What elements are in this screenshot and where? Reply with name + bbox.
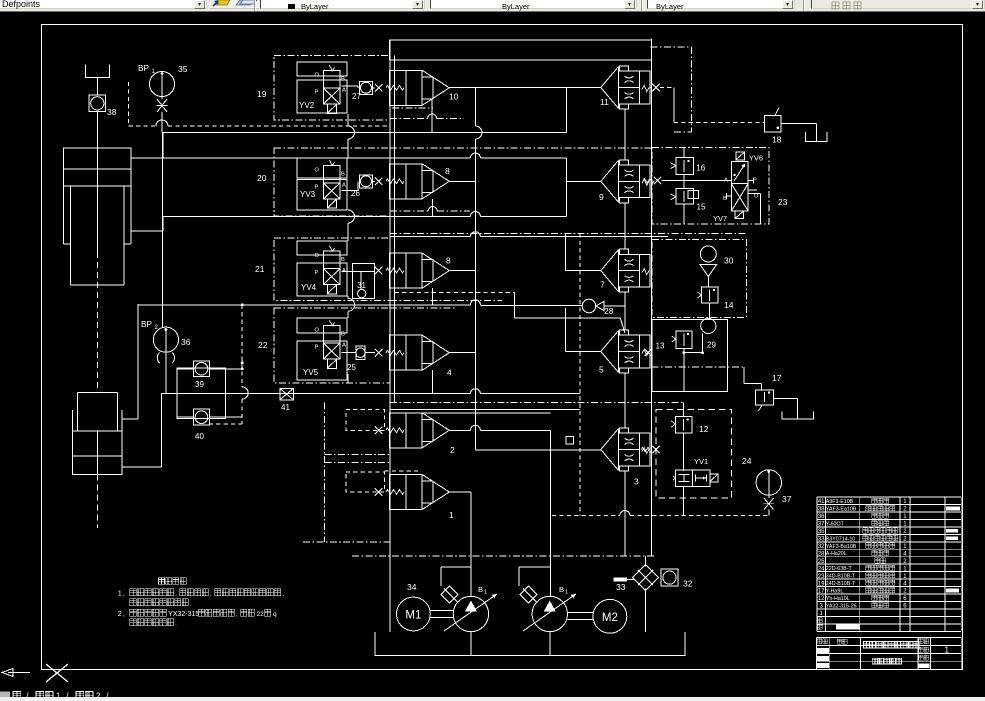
title block xyxy=(816,637,961,669)
svg-text:M1: M1 xyxy=(405,610,421,622)
check valve 39 xyxy=(194,361,210,377)
solenoid flag YV6 xyxy=(736,152,744,160)
title block small labels xyxy=(817,639,827,644)
svg-text:,: , xyxy=(175,591,177,597)
title drawing subtitle xyxy=(872,658,901,664)
group port line xyxy=(342,352,356,354)
jog port to bus y132 xyxy=(162,133,164,159)
relief valve 13 xyxy=(676,331,692,348)
svg-text:.: . xyxy=(190,601,192,607)
wire BP2 down xyxy=(165,352,167,393)
O drain wire xyxy=(748,189,757,191)
svg-text:16: 16 xyxy=(696,164,705,173)
pilot dashed line vertical xyxy=(128,82,130,126)
svg-text:YX32-315: YX32-315 xyxy=(168,611,199,618)
CY2 bottom port wire xyxy=(122,466,161,468)
svg-text:2: 2 xyxy=(118,609,122,618)
valve1 tip wire to pump riser xyxy=(449,491,471,493)
svg-text:24D-B10B-T: 24D-B10B-T xyxy=(826,581,856,587)
svg-text:40: 40 xyxy=(195,432,204,441)
svg-text:23: 23 xyxy=(778,197,788,207)
svg-text:YAF3-Ba10B: YAF3-Ba10B xyxy=(826,544,857,550)
wire x475 bus to y409 xyxy=(474,403,476,410)
svg-text:9: 9 xyxy=(599,192,604,202)
CY1 bottom port wire xyxy=(131,230,163,232)
svg-text:8: 8 xyxy=(445,166,450,176)
svg-text:BP: BP xyxy=(141,320,152,329)
seat valve 3 xyxy=(601,429,619,471)
note line 4 xyxy=(130,619,174,626)
wire 12 to YV1 xyxy=(683,433,685,471)
valve group box 25 xyxy=(274,308,390,383)
bus wire y216 with hop xyxy=(163,216,471,218)
throttle right of 11 xyxy=(652,84,660,92)
svg-text:28: 28 xyxy=(818,551,825,557)
check valve on pump2 outlet xyxy=(523,589,537,603)
throttle and spring of 8 xyxy=(375,178,383,186)
svg-text:Y-60OT: Y-60OT xyxy=(826,521,845,527)
svg-text:A-Ha20L: A-Ha20L xyxy=(826,551,847,557)
svg-text:30: 30 xyxy=(724,256,734,266)
svg-text:22: 22 xyxy=(258,340,268,350)
title right cells xyxy=(919,639,929,644)
CY1 top port bus y158 to valve 9 xyxy=(131,157,470,159)
svg-text:YV2: YV2 xyxy=(299,101,315,110)
svg-text:O: O xyxy=(315,167,320,173)
svg-text:B: B xyxy=(341,171,345,177)
pilot valve YV4 body xyxy=(297,241,347,255)
svg-text:YV4: YV4 xyxy=(301,283,317,292)
svg-text:34D-B10B-T: 34D-B10B-T xyxy=(826,574,856,580)
dashed pilot bus y515 with hop xyxy=(552,515,620,517)
svg-text:,: , xyxy=(282,591,284,597)
dashed pilot to valve 18 xyxy=(674,121,764,123)
wire YV1 down xyxy=(683,486,685,515)
dash-dot bus on top edge xyxy=(400,39,651,41)
svg-text:14: 14 xyxy=(724,300,734,310)
solenoid flag YV7 xyxy=(735,211,743,219)
svg-text:1: 1 xyxy=(484,590,487,596)
svg-text:A: A xyxy=(342,343,346,349)
piston rod dashed CY1-CY2 xyxy=(96,252,98,392)
svg-text:3: 3 xyxy=(634,477,639,487)
riser to 32 xyxy=(645,589,647,632)
svg-text:B: B xyxy=(559,585,564,594)
svg-text:24: 24 xyxy=(742,456,752,466)
svg-text:A9F3-E10B: A9F3-E10B xyxy=(826,499,854,505)
UCS icon X xyxy=(46,664,68,682)
svg-text:8: 8 xyxy=(446,256,451,266)
tank T2 xyxy=(805,132,826,142)
throttle on valve3 row xyxy=(652,446,659,453)
gauge BP2 xyxy=(153,327,178,352)
group port line xyxy=(342,189,358,191)
cylinder CY2 xyxy=(76,393,78,432)
throttle and spring of 1 xyxy=(375,488,383,496)
svg-text:2: 2 xyxy=(450,445,455,455)
svg-text:P: P xyxy=(315,270,319,276)
wire filter to cylinder xyxy=(96,112,98,149)
svg-text:YV3: YV3 xyxy=(300,190,316,199)
svg-text:YV7: YV7 xyxy=(713,214,727,223)
svg-text:13: 13 xyxy=(656,342,665,351)
seat valve 5 xyxy=(601,331,619,373)
pilot dashed line horizontal with hop xyxy=(129,125,156,127)
svg-text:7: 7 xyxy=(600,280,605,290)
orifice square on feed 3 xyxy=(566,436,573,443)
dash-dot y211 row 20 xyxy=(390,210,428,212)
pilot op check 28 xyxy=(480,305,582,307)
manifold wire x390 xyxy=(389,40,391,632)
note line 2 xyxy=(130,599,189,606)
svg-text:20: 20 xyxy=(257,173,267,183)
seat valve 9 xyxy=(601,160,619,202)
technical requirements title xyxy=(159,578,187,585)
shaft M2-pump2 xyxy=(568,612,593,614)
svg-text:24: 24 xyxy=(818,566,825,572)
wire 33-32 xyxy=(627,579,635,581)
check valve 32 square xyxy=(661,569,678,586)
svg-text:M2: M2 xyxy=(602,612,618,624)
pilot valve YV2 body xyxy=(297,62,347,76)
filter 32 diamond xyxy=(633,565,659,591)
top right dash-dot pilot xyxy=(651,46,692,48)
svg-text:28: 28 xyxy=(604,306,614,316)
air filter 30 xyxy=(700,246,716,262)
cartridge valve 1 body xyxy=(390,475,423,510)
svg-text:32: 32 xyxy=(683,579,693,589)
svg-text:11: 11 xyxy=(600,97,609,107)
pump1 riser x470 xyxy=(470,492,472,596)
throttle arcs under BP2 xyxy=(157,353,159,364)
svg-text:B: B xyxy=(341,257,345,263)
port line into group 23 xyxy=(643,179,654,183)
svg-text:35: 35 xyxy=(178,64,188,74)
pilot valve YV5 body xyxy=(297,318,347,333)
step wire to row line xyxy=(373,271,375,272)
dashed pilot y292 route to valve5 xyxy=(395,292,515,294)
drain wire valve8 xyxy=(432,199,434,217)
throttle check valve 41 xyxy=(280,388,294,399)
drain wire valve4 xyxy=(432,370,434,394)
wire between seat valves x625 xyxy=(624,109,626,161)
seat valve 11 xyxy=(601,67,619,109)
svg-text:12: 12 xyxy=(818,596,825,602)
P port stub xyxy=(748,180,753,182)
svg-text:27: 27 xyxy=(352,92,361,101)
tip wire of 4 xyxy=(449,352,475,354)
dash-dot bus y367 xyxy=(652,366,744,368)
wires in 13/29 box xyxy=(683,349,685,353)
valve group box 31 xyxy=(274,238,390,301)
svg-text:B3Y0714-10: B3Y0714-10 xyxy=(826,536,856,542)
tank T1 top-left xyxy=(86,65,110,78)
pilot vertical x580 xyxy=(579,233,581,515)
valve group 24 box xyxy=(656,409,732,498)
svg-text:P: P xyxy=(315,345,319,351)
gauge BP1 xyxy=(150,72,175,97)
svg-text:33: 33 xyxy=(616,582,626,592)
check valve 29 xyxy=(701,318,716,333)
svg-text:O: O xyxy=(315,328,320,334)
wires 16-15 stack xyxy=(683,147,685,157)
svg-text:Y-Ha9L: Y-Ha9L xyxy=(826,589,844,595)
wire throttle-11 to right xyxy=(673,88,675,123)
shaft M1-pump1 xyxy=(430,610,453,612)
group port line xyxy=(342,271,375,273)
svg-text:22D-63B-T: 22D-63B-T xyxy=(826,566,853,572)
oil tank bottom xyxy=(375,632,685,656)
svg-text:12: 12 xyxy=(699,424,709,434)
dash-dot bus y555 xyxy=(352,555,655,557)
pilot wire x348 between groups xyxy=(347,114,349,126)
svg-text:A: A xyxy=(342,182,346,188)
svg-text:1: 1 xyxy=(118,588,122,597)
svg-text:33: 33 xyxy=(818,537,825,543)
bus wire y304 with hop xyxy=(138,304,470,306)
svg-text:31: 31 xyxy=(357,281,366,290)
wire left riser BP1-BP2 xyxy=(161,133,163,328)
solenoid flag of YV1 xyxy=(710,474,718,482)
pump2 riser x550 xyxy=(549,430,551,596)
filter 38 xyxy=(89,95,106,112)
svg-text:15: 15 xyxy=(697,203,706,212)
svg-text:YA32-315-26: YA32-315-26 xyxy=(826,603,857,609)
box around 39/40 xyxy=(177,368,226,418)
motor M1 xyxy=(397,597,431,631)
svg-text:1: 1 xyxy=(945,646,950,655)
svg-text:YV6: YV6 xyxy=(749,154,763,163)
svg-text:A: A xyxy=(342,88,346,94)
BOM row xuhao xyxy=(818,618,823,623)
wire 30 to 14 xyxy=(707,277,709,288)
UCS icon arrow xyxy=(8,672,30,674)
svg-text:38: 38 xyxy=(818,507,825,513)
solenoid valve YV6/YV7 xyxy=(731,161,748,183)
dash-dot bus y233 xyxy=(390,232,746,234)
svg-text:Yh-Ha10L: Yh-Ha10L xyxy=(826,596,850,602)
cartridge valve 10 body xyxy=(390,70,423,105)
throttle and spring of 8 xyxy=(375,267,383,275)
seat valve 7 xyxy=(601,250,619,292)
tip wire of 8 xyxy=(449,270,475,272)
bottom scrollbar strip xyxy=(0,697,985,701)
svg-text:YV5: YV5 xyxy=(303,368,319,377)
ladder vertical x566 from apex11 xyxy=(566,87,568,132)
cartridge valve 2 body xyxy=(390,413,423,448)
svg-text:19: 19 xyxy=(257,89,267,99)
svg-text:25: 25 xyxy=(347,363,356,372)
svg-text:41: 41 xyxy=(818,499,825,505)
tip wire of 8 xyxy=(449,180,475,182)
CY2 top port wire xyxy=(122,418,138,420)
wires valve 17 xyxy=(743,367,745,384)
svg-text:5: 5 xyxy=(599,365,604,375)
wire BP1 down xyxy=(161,96,163,99)
svg-text:29: 29 xyxy=(707,341,716,350)
svg-text:A: A xyxy=(724,178,728,184)
manifold wire x394 xyxy=(394,55,396,402)
svg-text:B: B xyxy=(478,585,483,594)
svg-text:22: 22 xyxy=(256,611,264,618)
svg-text:23: 23 xyxy=(818,574,825,580)
svg-text:25: 25 xyxy=(818,559,825,565)
svg-text:36: 36 xyxy=(181,337,191,347)
feed wire to valve 5 xyxy=(564,308,566,352)
svg-text:YV1: YV1 xyxy=(694,457,708,466)
svg-text:35: 35 xyxy=(818,529,825,535)
ladder vertical x566 upper xyxy=(566,158,568,217)
pilot valve 18 xyxy=(764,116,781,132)
title drawing name xyxy=(864,642,920,648)
throttle and spring of 4 xyxy=(375,349,383,357)
valve2 outer top wire xyxy=(422,412,550,414)
check valve 40 xyxy=(194,409,210,425)
shutoff valve under BP1 xyxy=(157,99,167,112)
relief valve 12 xyxy=(675,417,692,434)
pilot dashed boxes rows 2 and 1 xyxy=(346,410,385,431)
svg-text:P: P xyxy=(315,90,319,96)
svg-text:BP: BP xyxy=(138,64,149,73)
solid bus y236 xyxy=(390,236,470,238)
cartridge valve 8 body xyxy=(390,164,423,199)
svg-text:1: 1 xyxy=(565,590,568,596)
svg-text:,: , xyxy=(123,590,125,597)
feed wire to valve 7 xyxy=(564,233,566,270)
svg-text:B: B xyxy=(341,77,345,83)
throttle on 13/29 left xyxy=(645,349,652,356)
svg-text:10: 10 xyxy=(449,92,459,102)
svg-text:O: O xyxy=(315,73,320,79)
step wire to row line xyxy=(373,352,375,354)
svg-text:,: , xyxy=(123,611,125,618)
wire 12 up xyxy=(683,403,685,417)
cartridge valve 8 body xyxy=(390,253,423,288)
valve group box 27 xyxy=(274,55,390,120)
strainer 33 bar xyxy=(614,578,627,582)
pilot dashed horizontal y424 xyxy=(209,423,242,425)
svg-text:.: . xyxy=(175,621,177,627)
relief valve 15 xyxy=(676,189,694,204)
bus wire y393 with hop xyxy=(161,393,470,395)
wire 18 to tank xyxy=(781,123,817,125)
remote relief valve 17 xyxy=(756,390,774,405)
svg-text:O: O xyxy=(754,194,759,200)
svg-text:32: 32 xyxy=(818,544,825,550)
outer box of valve assembly 10 xyxy=(390,40,652,60)
pump drain risers xyxy=(470,632,472,656)
check valve 31 circle xyxy=(358,289,366,297)
piston rod dashed CY2 below xyxy=(96,474,98,528)
pilot valve YV3 body xyxy=(297,158,347,178)
relief valve 16 xyxy=(676,158,694,175)
pilot box 30/14 xyxy=(652,240,746,318)
valve2 tip wire to pump riser xyxy=(449,429,470,431)
pump B1 right xyxy=(532,596,567,631)
svg-text:37: 37 xyxy=(782,494,792,504)
svg-text:36: 36 xyxy=(818,514,825,520)
cylinder CY1 xyxy=(63,148,131,169)
relief valve 14 xyxy=(702,287,718,303)
dash-dot bus y402 extension xyxy=(390,402,683,404)
main vertical wire x651 xyxy=(651,39,653,556)
feed wire to valve 3 xyxy=(475,449,600,451)
svg-text:34: 34 xyxy=(407,582,417,592)
wire 14 down xyxy=(709,303,711,319)
group port line xyxy=(342,85,358,87)
B port stub xyxy=(727,195,732,197)
svg-text:18: 18 xyxy=(772,135,782,145)
valve group 23 box xyxy=(652,147,769,224)
solid wire y409 xyxy=(390,408,580,410)
svg-text:17: 17 xyxy=(818,589,825,595)
solenoid valve YV1 xyxy=(675,470,710,487)
svg-text:39: 39 xyxy=(195,380,204,389)
drain wire valve10 xyxy=(431,99,433,133)
valve box 13/29 xyxy=(652,320,727,392)
pilot dashed vertical x242 xyxy=(241,305,243,387)
svg-text:4: 4 xyxy=(447,368,452,378)
svg-text:17: 17 xyxy=(772,373,782,383)
svg-text:21: 21 xyxy=(255,264,265,274)
svg-text:O: O xyxy=(315,253,320,259)
dash-dot row segments xyxy=(392,107,433,109)
BOM parts table xyxy=(817,497,961,631)
valve 10 tip wire to 11 xyxy=(449,86,601,88)
dash-dot rows 2/1 edges xyxy=(325,454,391,456)
svg-text:q: q xyxy=(273,611,277,618)
svg-text:1: 1 xyxy=(449,510,454,520)
shutoff valve under 37 xyxy=(764,498,774,510)
model/layout tabs xyxy=(0,692,10,701)
svg-text:38: 38 xyxy=(107,107,117,117)
gauge 37 xyxy=(756,470,781,495)
main bus wire y132 xyxy=(162,132,567,134)
cartridge valve 4 body xyxy=(390,335,423,370)
throttle and spring of 2 xyxy=(375,427,383,435)
svg-text:19: 19 xyxy=(818,581,825,587)
check valve on pump1 outlet xyxy=(444,589,458,603)
svg-text:37: 37 xyxy=(818,522,825,528)
svg-text:41: 41 xyxy=(281,403,290,412)
wires 39/40 to box xyxy=(177,368,194,370)
dash-dot wire y542 xyxy=(303,541,390,543)
collector wire x475 xyxy=(474,87,476,126)
valve group box 26 xyxy=(274,148,390,216)
dash-dot vertical x324 xyxy=(324,403,326,543)
svg-text:B: B xyxy=(341,332,345,338)
throttle and spring of 10 xyxy=(375,84,383,92)
svg-text:YAF3-Ea10B: YAF3-Ea10B xyxy=(826,506,857,512)
motor M2 xyxy=(593,599,627,633)
pump B1 left xyxy=(453,596,488,631)
drain wire valve8b xyxy=(432,288,434,305)
tank T3 under 17 xyxy=(782,411,814,419)
svg-text:,: , xyxy=(210,591,212,597)
svg-text:,: , xyxy=(236,612,238,618)
